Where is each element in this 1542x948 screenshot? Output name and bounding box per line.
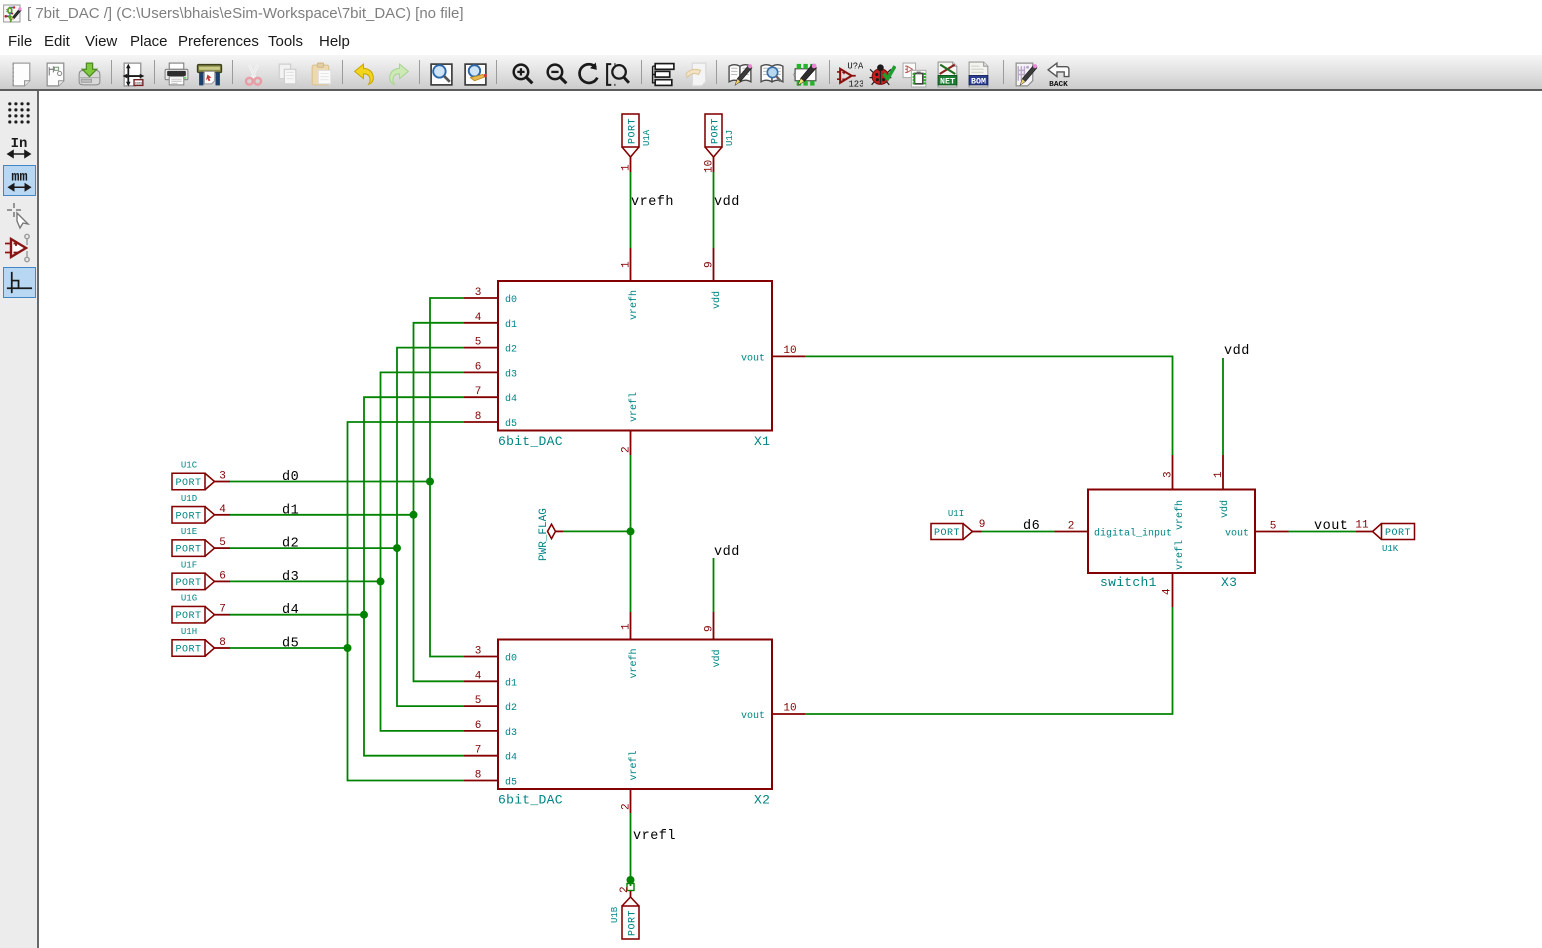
wire net vdd top bbox=[713, 172, 715, 248]
component X1 6bit_DAC body bbox=[498, 281, 772, 431]
wire net d0 horizontal bbox=[230, 481, 430, 483]
svg-text:1: 1 bbox=[621, 261, 633, 268]
port U1D ref bbox=[181, 494, 197, 504]
svg-text:PORT: PORT bbox=[175, 611, 201, 622]
port U1F pin 6 bbox=[215, 570, 231, 582]
junction vrefl PWR_FLAG bbox=[627, 527, 635, 535]
svg-text:U1C: U1C bbox=[181, 461, 198, 471]
svg-text:6bit_DAC: 6bit_DAC bbox=[498, 434, 563, 449]
svg-text:5: 5 bbox=[219, 537, 226, 549]
X3 pin 3 vrefh bbox=[1163, 455, 1187, 530]
svg-text:d6: d6 bbox=[1023, 519, 1040, 534]
svg-text:switch1: switch1 bbox=[1100, 575, 1157, 590]
svg-text:X1: X1 bbox=[754, 434, 770, 449]
port U1A pin 1 bbox=[621, 157, 633, 172]
svg-text:d5: d5 bbox=[505, 418, 517, 430]
svg-text:10: 10 bbox=[783, 345, 796, 357]
port U1C ref bbox=[181, 461, 198, 471]
svg-text:d2: d2 bbox=[505, 344, 517, 356]
X1 pin 2 vrefl bbox=[621, 392, 641, 455]
svg-text:PORT: PORT bbox=[711, 118, 722, 144]
port U1F ref bbox=[181, 560, 197, 570]
wire net d3 vertical and elbows bbox=[381, 372, 465, 731]
port U1E pin 5 bbox=[215, 537, 231, 549]
svg-text:5: 5 bbox=[475, 337, 482, 349]
svg-text:vout: vout bbox=[741, 711, 765, 722]
svg-text:U1F: U1F bbox=[181, 560, 197, 570]
svg-text:d5: d5 bbox=[282, 637, 299, 652]
X1 pin 10 vout bbox=[741, 345, 805, 364]
svg-text:3: 3 bbox=[219, 471, 226, 483]
svg-text:d5: d5 bbox=[505, 777, 517, 789]
port U1K bbox=[1373, 524, 1415, 540]
port U1K pin 11 bbox=[1355, 520, 1372, 532]
port U1E bbox=[172, 540, 215, 557]
X2 pin 9 vdd bbox=[704, 612, 724, 668]
port U1K ref bbox=[1382, 544, 1399, 554]
svg-text:PWR_FLAG: PWR_FLAG bbox=[538, 508, 550, 561]
svg-text:vdd: vdd bbox=[1224, 344, 1250, 359]
svg-text:vdd: vdd bbox=[1219, 500, 1231, 518]
port U1B bbox=[622, 897, 639, 939]
label vdd bbox=[714, 195, 740, 210]
svg-text:2: 2 bbox=[619, 886, 631, 893]
junction d3 bbox=[377, 577, 385, 585]
port U1D bbox=[172, 507, 215, 524]
svg-text:9: 9 bbox=[704, 261, 716, 268]
svg-text:vrefl: vrefl bbox=[1174, 540, 1186, 570]
svg-text:PORT: PORT bbox=[628, 910, 639, 936]
svg-text:d0: d0 bbox=[282, 470, 299, 485]
label d0 bbox=[282, 470, 299, 485]
label vdd mid bbox=[714, 545, 740, 560]
wire net vrefl_out X2 vout to X3 bbox=[805, 607, 1173, 714]
wire net vrefh top bbox=[630, 172, 632, 248]
junction vrefl port bbox=[627, 876, 635, 884]
svg-text:d3: d3 bbox=[505, 368, 517, 380]
svg-text:X3: X3 bbox=[1221, 575, 1237, 590]
svg-text:U1A: U1A bbox=[642, 129, 652, 146]
label d6 bbox=[1023, 519, 1040, 534]
port U1I pin 9 bbox=[973, 519, 986, 532]
X3 pin 2 digital_input bbox=[1055, 521, 1173, 540]
port U1I ref bbox=[948, 509, 964, 519]
X3 value switch1 bbox=[1100, 575, 1157, 590]
svg-text:PORT: PORT bbox=[175, 578, 201, 589]
svg-text:2: 2 bbox=[621, 803, 633, 810]
svg-text:10: 10 bbox=[704, 160, 716, 173]
svg-text:5: 5 bbox=[1270, 521, 1277, 533]
X3 pin 4 vrefl bbox=[1162, 540, 1187, 607]
svg-text:d1: d1 bbox=[282, 503, 299, 518]
svg-text:7: 7 bbox=[219, 604, 226, 616]
svg-text:vrefh: vrefh bbox=[628, 290, 640, 320]
svg-text:vrefl: vrefl bbox=[633, 829, 676, 844]
X1 value 6bit_DAC bbox=[498, 434, 563, 449]
svg-text:2: 2 bbox=[621, 446, 633, 453]
junction d4 bbox=[360, 611, 368, 619]
wire net d2 vertical and elbows bbox=[397, 348, 464, 706]
port U1J label PORT bbox=[711, 118, 722, 144]
port U1G bbox=[172, 606, 215, 623]
junction d5 bbox=[344, 644, 352, 652]
port U1I bbox=[931, 524, 973, 540]
svg-text:d1: d1 bbox=[505, 319, 517, 331]
svg-text:vrefh: vrefh bbox=[628, 648, 640, 678]
wire net vrefh_out X1 vout to X3 bbox=[805, 356, 1173, 455]
svg-text:d1: d1 bbox=[505, 677, 517, 689]
junction d0 bbox=[426, 478, 434, 486]
port U1A ref bbox=[642, 129, 652, 146]
svg-text:6: 6 bbox=[219, 570, 226, 582]
junction d1 bbox=[410, 511, 418, 519]
svg-text:d4: d4 bbox=[505, 752, 517, 764]
svg-text:8: 8 bbox=[219, 637, 226, 649]
svg-text:U1D: U1D bbox=[181, 494, 197, 504]
wire net d1 horizontal bbox=[230, 514, 414, 516]
port U1J bbox=[705, 114, 722, 157]
svg-text:vrefl: vrefl bbox=[628, 750, 640, 780]
svg-text:PORT: PORT bbox=[1385, 528, 1411, 539]
port U1J ref bbox=[725, 130, 735, 146]
svg-text:vdd: vdd bbox=[714, 545, 740, 560]
svg-text:PORT: PORT bbox=[175, 478, 201, 489]
svg-text:6: 6 bbox=[475, 720, 482, 732]
svg-text:U1B: U1B bbox=[610, 906, 620, 923]
X2 ref X2 bbox=[754, 793, 770, 808]
label vout bbox=[1314, 519, 1348, 534]
X2 pin 2 vrefl bbox=[621, 750, 641, 813]
label d4 bbox=[282, 603, 299, 618]
svg-text:d2: d2 bbox=[505, 702, 517, 714]
svg-text:d3: d3 bbox=[505, 727, 517, 739]
port U1H pin 8 bbox=[215, 637, 231, 649]
svg-text:d4: d4 bbox=[505, 393, 517, 405]
wire net d0 vertical and elbows bbox=[430, 298, 464, 657]
X2 value 6bit_DAC bbox=[498, 793, 563, 808]
X1 pin 1 vrefh bbox=[621, 248, 641, 320]
svg-text:1: 1 bbox=[621, 623, 633, 630]
svg-text:10: 10 bbox=[783, 703, 796, 715]
port U1J pin 10 bbox=[704, 157, 716, 173]
port U1A label PORT bbox=[628, 118, 639, 144]
X1 pin names d0-d5 bbox=[505, 294, 517, 430]
svg-text:7: 7 bbox=[475, 745, 482, 757]
svg-text:d0: d0 bbox=[505, 294, 517, 306]
svg-text:7: 7 bbox=[475, 386, 482, 398]
wire net d4 horizontal bbox=[230, 614, 364, 616]
port U1C bbox=[172, 473, 215, 490]
svg-text:6: 6 bbox=[475, 361, 482, 373]
wire end square marker bbox=[627, 884, 634, 891]
wire net d5 horizontal bbox=[230, 647, 348, 649]
wire net d6 bbox=[982, 531, 1055, 533]
svg-text:1: 1 bbox=[621, 164, 633, 171]
component X3 switch1 body bbox=[1088, 490, 1255, 574]
svg-text:PORT: PORT bbox=[628, 118, 639, 144]
svg-text:5: 5 bbox=[475, 695, 482, 707]
label d3 bbox=[282, 570, 299, 585]
svg-text:d2: d2 bbox=[282, 537, 299, 552]
svg-text:U1K: U1K bbox=[1382, 544, 1399, 554]
svg-text:PORT: PORT bbox=[175, 511, 201, 522]
wire net d5 vertical and elbows bbox=[348, 422, 465, 781]
svg-text:vout: vout bbox=[741, 353, 765, 364]
svg-text:9: 9 bbox=[704, 625, 716, 632]
port U1G ref bbox=[181, 594, 197, 604]
wire net vdd to X2 bbox=[713, 558, 715, 612]
svg-text:4: 4 bbox=[475, 670, 482, 682]
port U1B label PORT bbox=[628, 910, 639, 936]
svg-text:vrefh: vrefh bbox=[631, 195, 674, 210]
X2 pin numbers 3-8 bbox=[475, 646, 482, 782]
port U1B pin 2 bbox=[619, 886, 631, 897]
X2 pin 1 vrefh bbox=[621, 612, 641, 679]
X1 ref X1 bbox=[754, 434, 770, 449]
svg-text:vout: vout bbox=[1314, 519, 1348, 534]
svg-text:4: 4 bbox=[475, 312, 482, 324]
X2 pin names d0-d5 bbox=[505, 653, 517, 789]
X1 pins d0-d5 stubs bbox=[464, 298, 498, 422]
port U1E ref bbox=[181, 527, 197, 537]
wire net d3 horizontal bbox=[230, 580, 381, 582]
junction d2 bbox=[393, 544, 401, 552]
label d1 bbox=[282, 503, 299, 518]
port U1H bbox=[172, 640, 215, 657]
svg-text:vrefh: vrefh bbox=[1174, 500, 1186, 530]
X3 ref X3 bbox=[1221, 575, 1237, 590]
label d5 bbox=[282, 637, 299, 652]
svg-text:vout: vout bbox=[1225, 529, 1249, 540]
svg-text:U1J: U1J bbox=[725, 130, 735, 146]
port U1D pin 4 bbox=[215, 504, 231, 516]
wire net vout bbox=[1289, 531, 1357, 533]
svg-text:11: 11 bbox=[1355, 520, 1369, 532]
svg-text:8: 8 bbox=[475, 411, 482, 423]
X1 pin 9 vdd bbox=[704, 248, 724, 309]
svg-text:3: 3 bbox=[475, 646, 482, 658]
svg-text:U1G: U1G bbox=[181, 594, 197, 604]
PWR_FLAG value text bbox=[538, 508, 550, 561]
wire net d4 vertical and elbows bbox=[364, 397, 464, 756]
svg-text:vdd: vdd bbox=[711, 649, 723, 667]
svg-text:3: 3 bbox=[1163, 471, 1175, 478]
svg-text:vdd: vdd bbox=[711, 291, 723, 309]
X3 pin 5 vout bbox=[1225, 521, 1289, 540]
port U1B ref bbox=[610, 906, 620, 923]
svg-text:3: 3 bbox=[475, 287, 482, 299]
wire net d1 vertical and elbows bbox=[414, 323, 465, 682]
X2 pin 10 vout bbox=[741, 703, 805, 723]
power flag PWR_FLAG bbox=[548, 524, 564, 538]
port U1H ref bbox=[181, 627, 197, 637]
port U1F bbox=[172, 573, 215, 590]
X3 pin 1 vdd bbox=[1213, 455, 1231, 518]
svg-text:8: 8 bbox=[475, 770, 482, 782]
svg-text:vrefl: vrefl bbox=[628, 392, 640, 422]
component X2 6bit_DAC body bbox=[498, 640, 772, 790]
svg-text:4: 4 bbox=[1162, 588, 1174, 595]
wire net vrefl bottom bbox=[630, 813, 632, 886]
svg-text:digital_input: digital_input bbox=[1094, 528, 1172, 540]
svg-text:PORT: PORT bbox=[934, 528, 960, 539]
wire net vrefl X1 to X2 bbox=[630, 455, 632, 612]
svg-text:d3: d3 bbox=[282, 570, 299, 585]
label vdd right bbox=[1224, 344, 1250, 359]
X1 pin numbers 3-8 bbox=[475, 287, 482, 423]
label vrefh bbox=[631, 195, 674, 210]
svg-text:2: 2 bbox=[1068, 521, 1075, 533]
svg-text:U1I: U1I bbox=[948, 509, 964, 519]
svg-text:6bit_DAC: 6bit_DAC bbox=[498, 793, 563, 808]
svg-text:U1E: U1E bbox=[181, 527, 197, 537]
wire net vdd to X3 bbox=[1222, 358, 1224, 455]
X2 pins d0-d5 stubs bbox=[464, 657, 498, 781]
svg-text:1: 1 bbox=[1213, 471, 1225, 478]
wire PWR_FLAG to vrefl net bbox=[563, 530, 631, 532]
eeschema window icon bbox=[3, 4, 22, 23]
svg-text:4: 4 bbox=[219, 504, 226, 516]
svg-text:9: 9 bbox=[979, 519, 986, 531]
svg-text:d0: d0 bbox=[505, 653, 517, 665]
svg-text:vdd: vdd bbox=[714, 195, 740, 210]
port U1C pin 3 bbox=[215, 471, 231, 483]
port U1A bbox=[622, 114, 639, 157]
svg-text:d4: d4 bbox=[282, 603, 299, 618]
port U1G pin 7 bbox=[215, 604, 231, 616]
svg-text:PORT: PORT bbox=[175, 645, 201, 656]
label vrefl bbox=[633, 829, 676, 844]
svg-text:PORT: PORT bbox=[175, 545, 201, 556]
svg-text:X2: X2 bbox=[754, 793, 770, 808]
label d2 bbox=[282, 537, 299, 552]
wire net d2 horizontal bbox=[230, 547, 397, 549]
svg-text:U1H: U1H bbox=[181, 627, 197, 637]
